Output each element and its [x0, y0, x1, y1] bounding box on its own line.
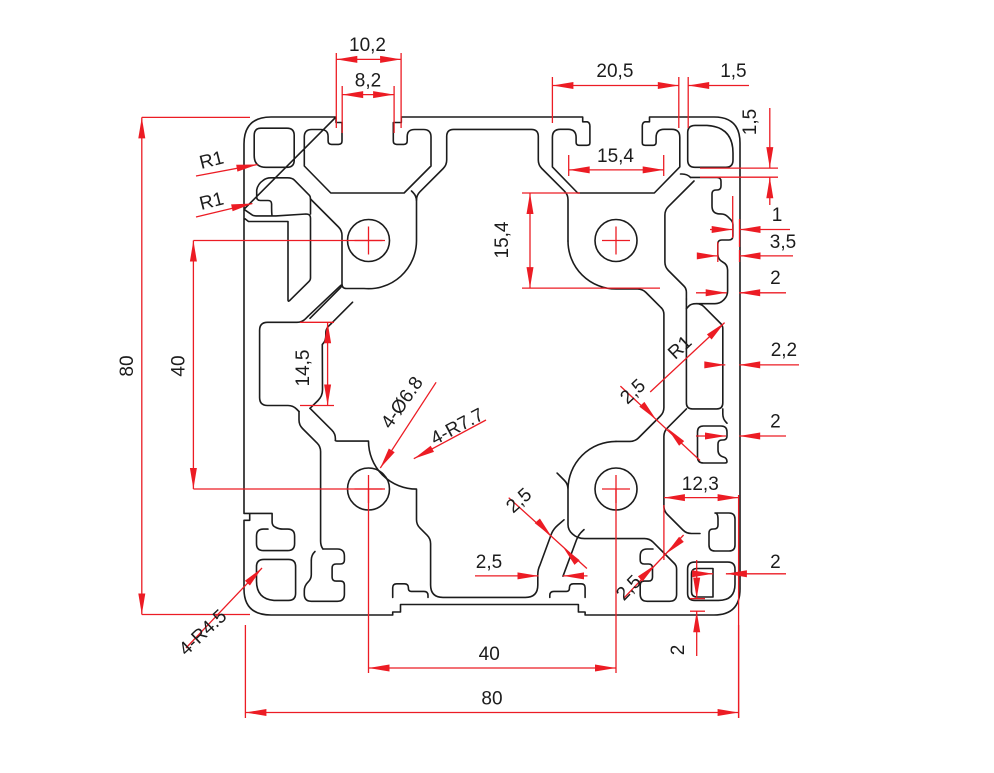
svg-text:2: 2 — [770, 268, 781, 289]
hole centre cross (368.5,489) — [355, 475, 383, 503]
dimension 1,5 right — [740, 108, 773, 205]
profile outer boundary with slot openings — [244, 117, 740, 615]
dimension 12,3 extension lines — [664, 495, 739, 718]
svg-text:2: 2 — [770, 552, 781, 573]
dimension 2,5 lower-right diagonal — [612, 535, 683, 605]
hole centre cross (616,489) — [602, 475, 630, 503]
bolt hole at (616,240.5) — [595, 220, 637, 262]
svg-text:1,5: 1,5 — [720, 61, 746, 82]
bottom-right face slot — [640, 549, 676, 601]
label 4-O6.8 — [377, 373, 436, 468]
dimension 2,5 upper-right diagonal — [616, 375, 700, 460]
right slot D pocket — [709, 513, 735, 551]
svg-text:40: 40 — [169, 355, 190, 376]
left upper jog diagonal — [308, 285, 353, 324]
right channel upper section — [686, 177, 733, 308]
svg-text:12,3: 12,3 — [682, 474, 719, 495]
top-left block island — [310, 191, 417, 318]
dimension 14,5 extension lines — [300, 322, 334, 405]
right lower connector webs — [664, 409, 727, 534]
dimension 80 bottom — [245, 689, 738, 717]
bottom-right corner cavity — [688, 562, 735, 600]
svg-text:1,5: 1,5 — [740, 109, 761, 135]
dimension 40 left extension lines — [193, 241, 385, 490]
right middle void — [686, 299, 722, 409]
dimension 20,5 extension lines — [552, 77, 688, 128]
bottom channel web outer face — [563, 530, 584, 577]
bottom-left block island — [335, 441, 564, 598]
bottom-right cavity inner hook — [692, 569, 714, 598]
svg-text:2: 2 — [770, 412, 781, 433]
dimension 15,4 horizontal extension lines — [569, 155, 664, 176]
dimension 40 left — [169, 241, 197, 490]
dimension 1,5 right extension lines — [700, 168, 778, 177]
dimension 12,3 — [664, 474, 739, 501]
svg-text:2,5: 2,5 — [476, 552, 502, 573]
svg-text:80: 80 — [481, 689, 502, 710]
svg-text:15,4: 15,4 — [597, 146, 634, 167]
bottom-left corner cavity — [257, 559, 296, 600]
dimension 14,5 — [293, 322, 331, 405]
svg-text:14,5: 14,5 — [293, 350, 314, 387]
svg-text:40: 40 — [479, 644, 500, 665]
label R1 right — [650, 323, 724, 392]
dimension 2 bottom extension — [690, 599, 705, 612]
dimension 8,2 — [342, 71, 394, 99]
svg-text:80: 80 — [117, 355, 138, 376]
label 4-R7.7 — [414, 404, 488, 458]
bottom-left face slot — [304, 549, 344, 601]
dimension 10,2 — [336, 35, 401, 63]
dimension 80 bottom extension lines — [245, 625, 738, 718]
hole centre cross (616,240.5) — [602, 227, 630, 255]
dimension 20,5 — [552, 61, 678, 89]
dimension 1,5 top — [688, 61, 749, 89]
left 14.5 chamber — [260, 316, 331, 411]
hole centreline bottom-right vertical — [615, 489, 617, 673]
dimension 2 upper-right — [696, 268, 786, 296]
dimension 80 left extension lines — [142, 117, 250, 614]
svg-text:20,5: 20,5 — [596, 61, 633, 82]
top-right corner cavity — [688, 125, 733, 167]
dimension 2 bottom — [668, 560, 700, 656]
dimension 2,5 centre diagonal — [502, 484, 586, 568]
bolt hole at (616,489) — [595, 468, 637, 510]
dimension 1 extension lines — [733, 196, 740, 247]
svg-text:8,2: 8,2 — [355, 71, 381, 92]
label R1 upper-left — [196, 148, 258, 176]
bolt hole at (368.5,489) — [348, 468, 390, 510]
dimension 15,4 vertical extension lines — [522, 193, 660, 288]
svg-text:3,5: 3,5 — [770, 232, 796, 253]
bolt hole at (368.5,240.5) — [348, 220, 390, 262]
dimension 3,5 — [697, 232, 796, 259]
label 4-R4.5 — [175, 568, 262, 660]
svg-text:10,2: 10,2 — [349, 35, 386, 56]
dimension 1 — [710, 205, 790, 233]
dimension 2 lower-right — [692, 552, 786, 577]
hole centre cross (368.5,240.5) — [355, 227, 383, 255]
dimension 3,5 extension lines — [718, 242, 740, 262]
bottom-right block island — [557, 441, 674, 563]
svg-text:2,2: 2,2 — [771, 340, 797, 361]
dimension 2,2 — [704, 340, 799, 368]
central void right wall webs — [616, 308, 664, 442]
dimension 15,4 horizontal — [569, 146, 664, 173]
left lower jog diagonals — [299, 408, 335, 549]
svg-text:1: 1 — [772, 205, 783, 226]
bottom-left slot inner hook — [311, 552, 315, 561]
dimension 8,2 extension lines — [342, 86, 394, 133]
dimension 40 bottom — [369, 644, 617, 672]
svg-text:2: 2 — [668, 645, 689, 656]
dimension 2,5 bottom — [475, 552, 588, 579]
dimension 2 mid-right — [696, 412, 786, 440]
bottom right foot hook — [550, 584, 585, 598]
hole centreline bottom-left vertical — [368, 489, 370, 673]
top channel between top blocks — [417, 129, 569, 241]
top-right block island — [568, 174, 694, 308]
bottom left foot hook — [393, 584, 428, 598]
lower-left slit pocket — [257, 528, 295, 551]
label R1 lower-left — [196, 189, 252, 217]
svg-text:15,4: 15,4 — [492, 221, 513, 258]
top-left corner cavity — [254, 128, 294, 167]
dimension 80 left — [117, 117, 145, 614]
dimension 10,2 extension lines — [336, 53, 401, 128]
dimension 15,4 vertical — [492, 193, 534, 288]
right slot C pocket — [698, 426, 728, 463]
